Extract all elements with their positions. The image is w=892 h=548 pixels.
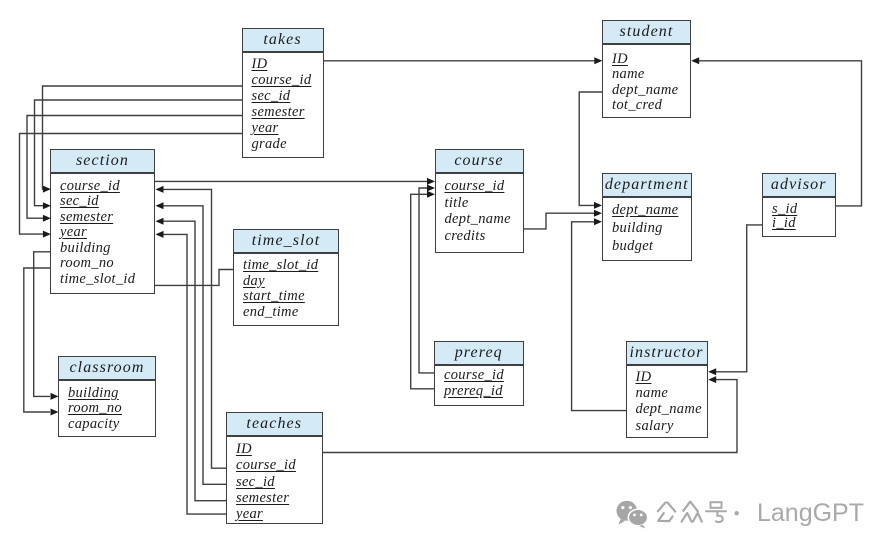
wechat icon big bubble [617,501,638,525]
arrowhead into section.year (right) [156,231,164,238]
arrowhead into classroom.room_no [51,409,59,416]
wire prereq.course_id -> course.course_id [419,188,435,373]
wechat icon small bubble [628,509,647,528]
table course [435,149,524,254]
wire takes.ID -> student.ID [323,60,600,62]
wire prereq.prereq_id -> course.course_id [411,194,435,388]
arrowhead into instructor.ID (from teaches) [708,376,716,383]
table prereq [434,341,524,406]
wire takes.year -> section.year [20,134,243,235]
wire takes.sec_id -> section.sec_id [35,100,243,206]
wire instructor.dept_name -> department.dept_name [572,222,627,411]
table takes [242,28,324,158]
watermark dot [735,511,739,515]
wire course.dept_name -> department.dept_name [523,213,600,229]
arrowhead into section.year (left) [43,231,51,238]
arrowhead into classroom.building [51,393,59,400]
arrowhead into instructor.ID (from advisor) [708,368,716,375]
wire teaches.course_id -> section.course_id [157,189,227,468]
wire takes.course_id -> section.course_id [43,86,243,189]
glyph zhong [682,502,702,522]
arrowhead into student.ID (from takes) [594,57,602,64]
arrowhead into section.sec_id (left) [43,202,51,209]
table teaches [226,412,323,525]
glyph hao [706,502,726,522]
arrowhead into section.course_id (left) [43,186,51,193]
wire takes.semester -> section.semester [27,116,242,219]
glyph gong [658,503,675,522]
wire section.room_no -> classroom.room_no [24,268,51,412]
wire student.dept_name -> department.dept_name [579,92,602,205]
table classroom [58,356,156,437]
wire advisor.s_id -> student.ID [694,61,862,206]
arrowhead into section.semester (left) [43,215,51,222]
wire advisor.i_id -> instructor.ID [710,225,763,372]
arrowhead into section.course_id (right) [156,186,164,193]
wire teaches.year -> section.year [157,234,227,514]
arrowhead into section.sec_id (right) [156,202,164,209]
arrowhead into course.course_id (from prereq.prereq_id) [427,191,435,198]
wire section.building -> classroom.building [34,252,51,397]
table student [602,20,691,118]
arrowhead into student.ID (from advisor) [691,57,699,64]
arrowhead into course.course_id (from prereq.course_id) [427,185,435,192]
arrowhead into department.dept_name (from student) [594,202,602,209]
arrowhead into department.dept_name (from instructor) [594,218,602,225]
table instructor [626,341,708,439]
wire teaches.ID -> instructor.ID [322,380,737,453]
wire teaches.sec_id -> section.sec_id [157,206,227,485]
table section [50,149,155,295]
table advisor [762,173,836,238]
table time_slot [233,229,339,327]
arrowhead into section.semester (right) [156,218,164,225]
arrowhead into course.course_id (from section) [427,178,435,185]
wire teaches.semester -> section.semester [157,221,227,501]
table department [602,173,692,261]
arrowhead into department.dept_name (from course) [594,210,602,217]
wire section.course_id -> course.course_id [155,180,433,182]
wire section.time_slot_id -> time_slot.time_slot_id [155,270,234,286]
